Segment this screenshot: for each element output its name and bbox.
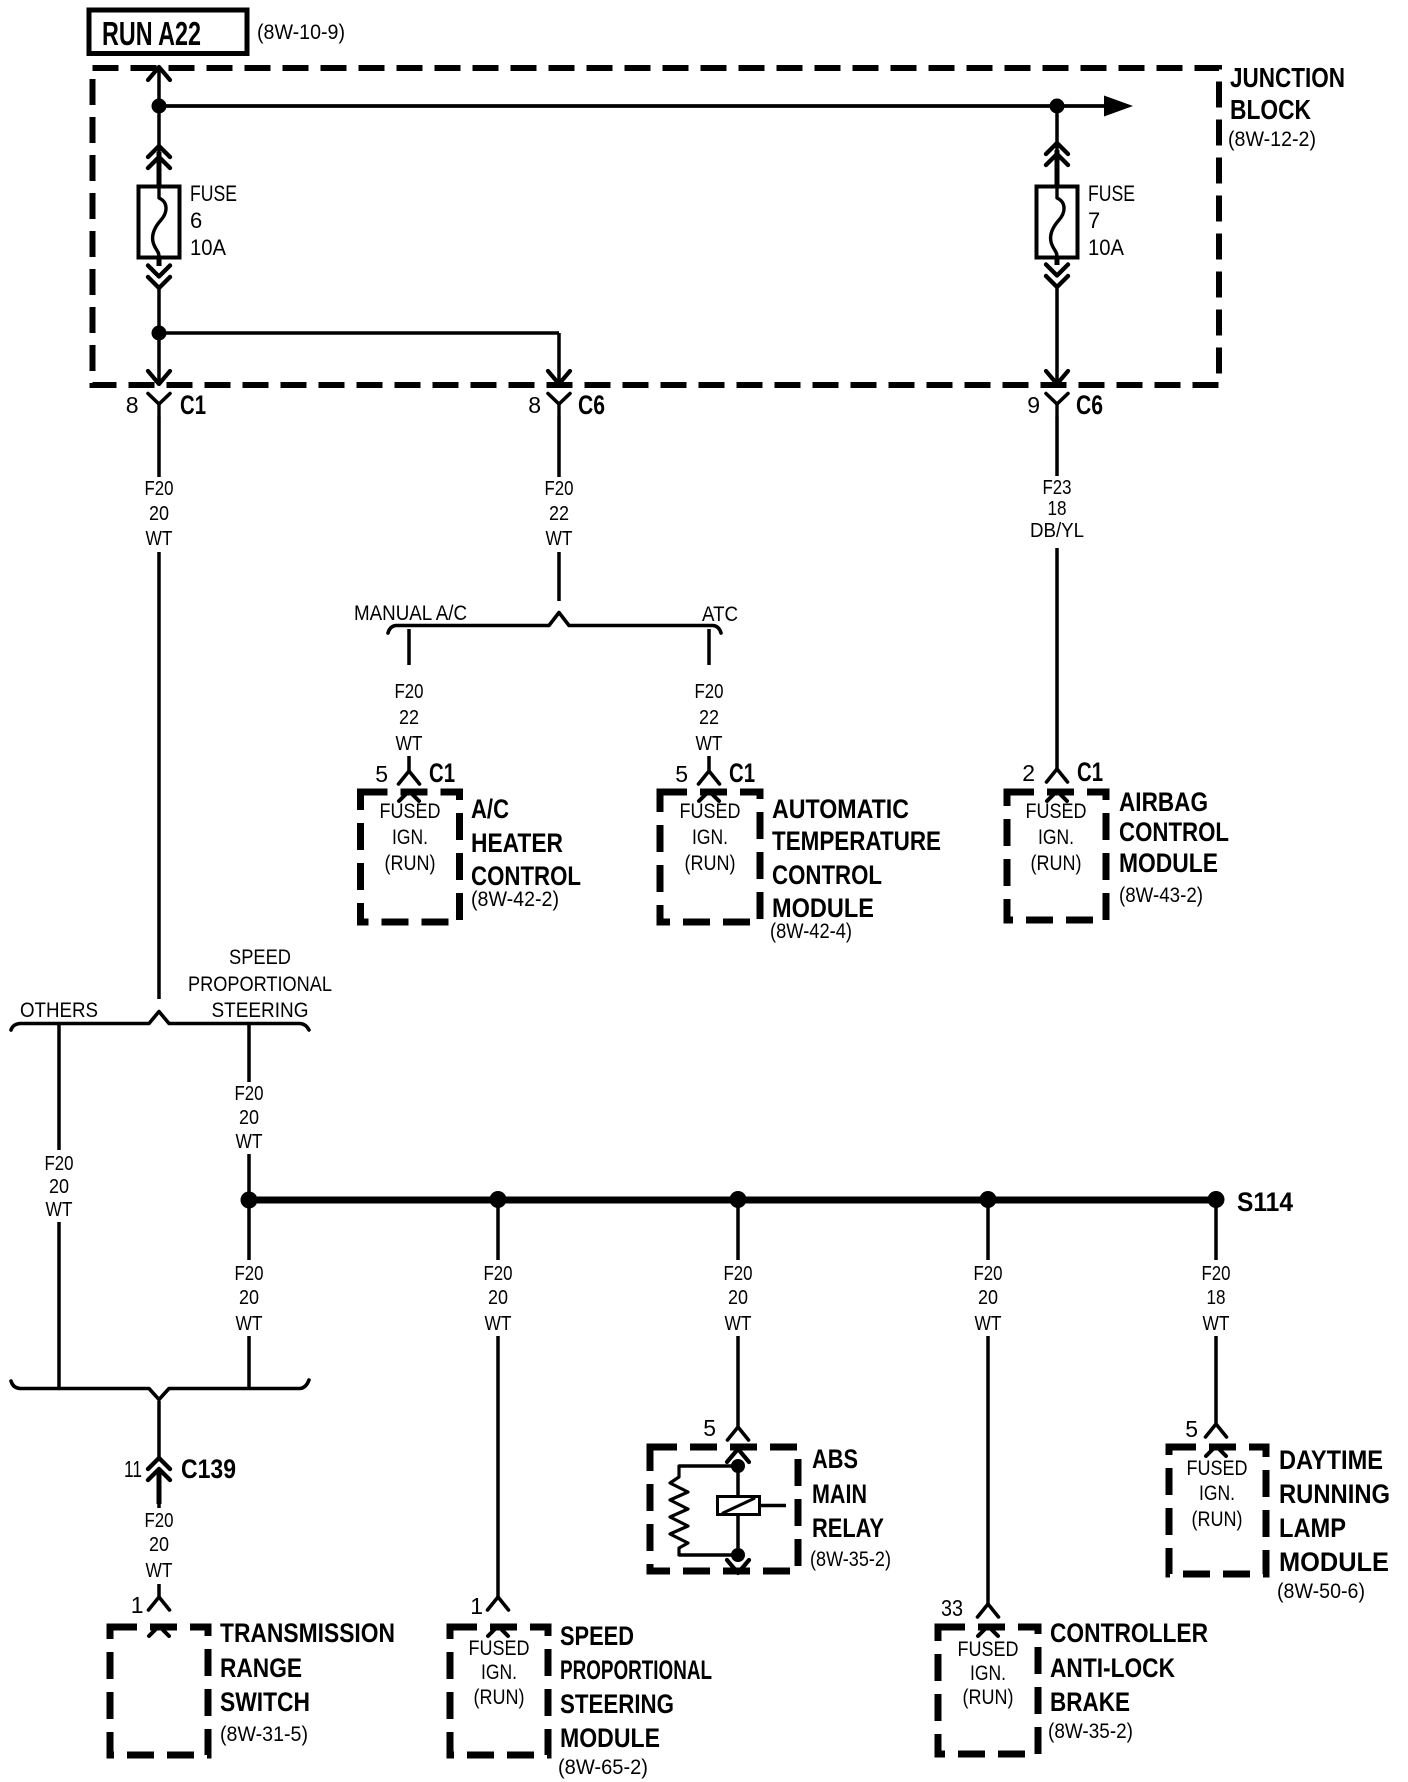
svg-text:WT: WT xyxy=(1203,1313,1230,1335)
wire fuse 7 to C6 exit xyxy=(1055,287,1059,383)
arrowhead at ABS relay box bottom exit xyxy=(727,1560,749,1573)
wire down to C6 exit xyxy=(557,333,561,383)
svg-text:FUSED: FUSED xyxy=(380,800,441,823)
wire S114 to ABS main relay xyxy=(736,1204,740,1427)
splice node speed prop steering module column xyxy=(490,1191,507,1208)
connector 11 C139 xyxy=(148,1458,170,1469)
wire ATC branch xyxy=(707,629,711,665)
wire label F20 18 WT (drl) xyxy=(1193,1260,1239,1336)
arrowhead down at C6 exit xyxy=(548,371,570,384)
connector 33 at controller anti-lock brake xyxy=(978,1604,999,1617)
svg-text:20: 20 xyxy=(488,1287,508,1309)
connector 5 C1 at a/c heater control xyxy=(399,771,420,784)
svg-text:FUSED: FUSED xyxy=(1026,800,1087,823)
svg-text:MODULE: MODULE xyxy=(1119,848,1218,878)
split brace MANUAL A/C vs ATC xyxy=(388,613,721,634)
wire fuse 6 to C1 exit xyxy=(157,288,161,383)
wire OTHERS branch xyxy=(57,1025,61,1389)
svg-text:BLOCK: BLOCK xyxy=(1230,94,1311,125)
svg-text:WT: WT xyxy=(146,1560,173,1582)
svg-text:22: 22 xyxy=(399,707,419,729)
svg-text:FUSE: FUSE xyxy=(1088,181,1135,206)
svg-text:RUNNING: RUNNING xyxy=(1279,1479,1390,1509)
relay coil lead xyxy=(760,1504,787,1508)
svg-text:22: 22 xyxy=(699,707,719,729)
svg-text:CONTROLLER: CONTROLLER xyxy=(1050,1618,1208,1648)
svg-text:(8W-50-6): (8W-50-6) xyxy=(1277,1580,1365,1603)
svg-text:PROPORTIONAL: PROPORTIONAL xyxy=(560,1655,712,1685)
speed proportional steering module box xyxy=(450,1627,548,1755)
wire resistor bottom to node xyxy=(679,1553,738,1557)
svg-text:18: 18 xyxy=(1207,1287,1226,1309)
svg-text:(8W-12-2): (8W-12-2) xyxy=(1228,128,1316,151)
svg-text:5: 5 xyxy=(375,761,388,787)
wire C139 to transmission range switch xyxy=(157,1504,161,1597)
svg-text:WT: WT xyxy=(725,1313,752,1335)
svg-text:F20: F20 xyxy=(1202,1263,1231,1285)
svg-text:7: 7 xyxy=(1088,208,1100,233)
svg-text:F23: F23 xyxy=(1043,477,1072,499)
wire label F20 20 WT (cab) xyxy=(965,1260,1011,1336)
svg-text:RANGE: RANGE xyxy=(220,1653,302,1683)
node RUN A22 feed box xyxy=(89,10,247,54)
junction node top inside ABS relay xyxy=(731,1459,745,1473)
wire top bus across junction block xyxy=(159,104,1106,108)
svg-text:(8W-35-2): (8W-35-2) xyxy=(1048,1720,1133,1743)
wire label F20 20 WT (c139) xyxy=(136,1508,182,1584)
svg-text:20: 20 xyxy=(239,1287,259,1309)
connector chevrons below fuse 6 xyxy=(157,258,162,266)
svg-text:AUTOMATIC: AUTOMATIC xyxy=(772,794,909,824)
splice node at sps branch xyxy=(241,1192,258,1209)
svg-text:F20: F20 xyxy=(235,1083,264,1105)
connector 8 C6 xyxy=(548,394,570,405)
connector chevrons above fuse 7 xyxy=(1046,143,1068,154)
svg-text:1: 1 xyxy=(131,1592,144,1618)
svg-text:LAMP: LAMP xyxy=(1279,1513,1346,1543)
svg-text:C1: C1 xyxy=(429,758,455,788)
svg-text:33: 33 xyxy=(941,1595,963,1621)
svg-text:20: 20 xyxy=(149,503,169,525)
connector 5 at daytime running lamp module xyxy=(1206,1424,1227,1437)
svg-text:IGN.: IGN. xyxy=(692,826,728,849)
svg-text:WT: WT xyxy=(485,1313,512,1335)
svg-text:CONTROL: CONTROL xyxy=(471,861,581,891)
svg-text:F20: F20 xyxy=(145,1510,174,1532)
wire label F20 22 WT (center run) xyxy=(536,477,582,552)
svg-text:S114: S114 xyxy=(1237,1187,1293,1217)
wire label F20 20 WT (left run) xyxy=(136,477,182,552)
svg-text:JUNCTION: JUNCTION xyxy=(1230,62,1345,93)
svg-text:IGN.: IGN. xyxy=(392,826,428,849)
arrowhead up at junction block top entry xyxy=(148,67,170,80)
wire label F23 18 DB/YL (airbag run) xyxy=(1026,476,1088,548)
wire label F20 20 WT (abs) xyxy=(715,1260,761,1336)
svg-text:(RUN): (RUN) xyxy=(1031,852,1082,875)
ABS main relay box xyxy=(650,1447,798,1571)
svg-text:10A: 10A xyxy=(190,235,226,260)
wire to relay resistor branch xyxy=(679,1464,738,1468)
svg-text:F20: F20 xyxy=(695,681,724,703)
svg-text:BRAKE: BRAKE xyxy=(1050,1687,1130,1717)
svg-text:STEERING: STEERING xyxy=(560,1689,674,1719)
svg-text:MODULE: MODULE xyxy=(772,893,874,923)
resistor of ABS main relay xyxy=(670,1466,688,1555)
wire label F20 20 WT (others) xyxy=(36,1150,82,1222)
svg-text:WT: WT xyxy=(696,733,723,755)
svg-text:IGN.: IGN. xyxy=(1199,1482,1235,1505)
svg-text:MODULE: MODULE xyxy=(1279,1547,1389,1577)
connector 8 C1 xyxy=(148,394,170,405)
svg-text:(RUN): (RUN) xyxy=(963,1686,1014,1709)
svg-text:(8W-65-2): (8W-65-2) xyxy=(558,1756,648,1779)
svg-text:IGN.: IGN. xyxy=(1038,826,1074,849)
svg-text:MANUAL A/C: MANUAL A/C xyxy=(354,602,467,625)
svg-text:ANTI-LOCK: ANTI-LOCK xyxy=(1050,1653,1175,1683)
svg-text:10A: 10A xyxy=(1088,235,1124,260)
connector 1 at transmission range switch xyxy=(149,1597,170,1610)
svg-text:(8W-43-2): (8W-43-2) xyxy=(1119,884,1203,907)
junction node below fuse 6 xyxy=(152,326,167,341)
svg-text:PROPORTIONAL: PROPORTIONAL xyxy=(188,973,332,996)
svg-text:(RUN): (RUN) xyxy=(685,852,736,875)
arrowhead right end of top bus xyxy=(1104,96,1133,117)
svg-text:FUSED: FUSED xyxy=(469,1637,530,1660)
svg-text:AIRBAG: AIRBAG xyxy=(1119,787,1208,817)
svg-text:FUSED: FUSED xyxy=(958,1638,1019,1661)
A/C heater control box xyxy=(361,792,460,922)
svg-text:C139: C139 xyxy=(181,1454,236,1484)
connector 1 at speed proportional steering module xyxy=(488,1597,509,1610)
arrowhead at ABS relay box entry xyxy=(727,1449,749,1462)
wire SPS branch to splice S114 xyxy=(247,1025,251,1389)
svg-text:2: 2 xyxy=(1022,760,1035,786)
svg-text:WT: WT xyxy=(236,1313,263,1335)
wire fuse 7 drop xyxy=(1055,106,1059,152)
connector 2 C1 at airbag control module xyxy=(1047,769,1068,782)
wire C6 to airbag control module xyxy=(1055,417,1059,769)
wire S114 to daytime running lamp module xyxy=(1214,1204,1218,1424)
svg-text:22: 22 xyxy=(549,503,569,525)
svg-text:WT: WT xyxy=(146,528,173,550)
wire branch to C6 exit xyxy=(159,331,559,335)
wire relay coil to bottom node xyxy=(736,1514,740,1555)
svg-text:20: 20 xyxy=(149,1534,169,1556)
svg-text:WT: WT xyxy=(396,733,423,755)
svg-text:F20: F20 xyxy=(724,1263,753,1285)
transmission range switch box xyxy=(110,1627,208,1755)
junction block dashed border xyxy=(93,68,1220,385)
merge brace to C139 xyxy=(11,1380,309,1400)
svg-text:DAYTIME: DAYTIME xyxy=(1279,1445,1383,1475)
svg-text:(8W-35-2): (8W-35-2) xyxy=(810,1548,891,1571)
wire label F20 20 WT (sps lower) xyxy=(226,1260,272,1336)
svg-text:F20: F20 xyxy=(545,478,574,500)
svg-text:8: 8 xyxy=(528,392,541,418)
split brace OTHERS vs SPEED PROPORTIONAL STEERING xyxy=(11,1012,309,1031)
svg-text:IGN.: IGN. xyxy=(970,1662,1006,1685)
svg-text:ABS: ABS xyxy=(812,1444,858,1474)
svg-text:(8W-10-9): (8W-10-9) xyxy=(257,21,345,44)
svg-text:20: 20 xyxy=(978,1287,998,1309)
svg-text:FUSE: FUSE xyxy=(190,181,237,206)
fuse 7 10A xyxy=(1037,187,1078,258)
svg-text:FUSED: FUSED xyxy=(680,800,741,823)
svg-text:F20: F20 xyxy=(145,478,174,500)
junction node at top bus xyxy=(152,99,167,114)
arrowhead down at C1 exit xyxy=(148,371,170,384)
wire C6 to A/C split xyxy=(557,417,561,601)
svg-text:20: 20 xyxy=(239,1107,259,1129)
svg-text:C1: C1 xyxy=(729,758,755,788)
arrowhead down at right C6 exit xyxy=(1046,371,1068,384)
svg-text:5: 5 xyxy=(703,1415,716,1441)
svg-text:SPEED: SPEED xyxy=(560,1621,634,1651)
relay coil of ABS main relay xyxy=(718,1497,760,1515)
connector 5 C1 at ATC module xyxy=(699,771,720,784)
airbag control module box xyxy=(1007,792,1106,920)
svg-text:MAIN: MAIN xyxy=(812,1479,867,1509)
junction node bottom inside ABS relay xyxy=(731,1548,745,1562)
svg-text:WT: WT xyxy=(236,1131,263,1153)
svg-text:9: 9 xyxy=(1027,392,1040,418)
junction node above fuse 7 xyxy=(1050,99,1065,114)
wire C1 to splice brace (left main run) xyxy=(157,417,161,999)
connector chevrons below fuse 7 xyxy=(1055,258,1060,265)
svg-text:C6: C6 xyxy=(1076,390,1103,420)
svg-text:(RUN): (RUN) xyxy=(1192,1508,1243,1531)
svg-text:(8W-31-5): (8W-31-5) xyxy=(220,1723,308,1746)
splice bus S114 xyxy=(249,1197,1216,1204)
wire from RUN A22 into junction block xyxy=(157,70,161,157)
wire S114 to speed proportional steering module xyxy=(496,1204,500,1597)
svg-text:6: 6 xyxy=(190,208,202,233)
svg-text:RELAY: RELAY xyxy=(812,1513,884,1543)
wire node to relay coil xyxy=(736,1466,740,1497)
svg-text:(8W-42-4): (8W-42-4) xyxy=(770,920,852,943)
svg-text:C1: C1 xyxy=(1077,757,1103,787)
svg-text:A/C: A/C xyxy=(471,794,509,824)
svg-text:TRANSMISSION: TRANSMISSION xyxy=(220,1618,395,1648)
svg-text:20: 20 xyxy=(728,1287,748,1309)
wire MANUAL A/C branch xyxy=(407,629,411,665)
svg-text:F20: F20 xyxy=(484,1263,513,1285)
splice node controller anti-lock brake column xyxy=(980,1191,997,1208)
automatic temperature control module box xyxy=(660,792,760,922)
svg-text:WT: WT xyxy=(975,1313,1002,1335)
svg-text:RUN A22: RUN A22 xyxy=(102,15,201,52)
svg-text:DB/YL: DB/YL xyxy=(1030,520,1084,542)
fuse 6 10A xyxy=(139,187,180,258)
svg-text:TEMPERATURE: TEMPERATURE xyxy=(772,826,941,856)
svg-text:8: 8 xyxy=(126,392,139,418)
wire label F20 20 WT (spsm) xyxy=(475,1260,521,1336)
svg-text:HEATER: HEATER xyxy=(471,828,563,858)
connector 5 at ABS main relay xyxy=(728,1427,749,1440)
svg-text:(RUN): (RUN) xyxy=(474,1686,525,1709)
splice node S114 right end xyxy=(1208,1191,1225,1208)
svg-text:(8W-42-2): (8W-42-2) xyxy=(471,888,559,911)
svg-text:SPEED: SPEED xyxy=(229,946,291,969)
daytime running lamp module box xyxy=(1169,1447,1266,1574)
svg-text:11: 11 xyxy=(124,1456,142,1482)
connector chevrons above fuse 6 xyxy=(148,146,170,157)
splice node abs main relay column xyxy=(730,1191,747,1208)
svg-text:CONTROL: CONTROL xyxy=(1119,817,1229,847)
svg-text:5: 5 xyxy=(675,761,688,787)
svg-text:ATC: ATC xyxy=(702,603,738,626)
svg-text:F20: F20 xyxy=(974,1263,1003,1285)
svg-text:5: 5 xyxy=(1185,1416,1198,1442)
svg-text:20: 20 xyxy=(49,1176,69,1198)
svg-text:OTHERS: OTHERS xyxy=(20,999,98,1022)
svg-text:F20: F20 xyxy=(45,1153,74,1175)
svg-text:WT: WT xyxy=(546,528,573,550)
wire S114 to controller anti-lock brake xyxy=(986,1204,990,1604)
svg-text:C6: C6 xyxy=(578,390,605,420)
svg-text:STEERING: STEERING xyxy=(212,999,309,1022)
svg-text:FUSED: FUSED xyxy=(1187,1457,1248,1480)
svg-text:WT: WT xyxy=(46,1199,73,1221)
svg-text:C1: C1 xyxy=(180,390,206,420)
svg-text:IGN.: IGN. xyxy=(481,1661,517,1684)
svg-text:MODULE: MODULE xyxy=(560,1723,660,1753)
controller anti-lock brake box xyxy=(938,1627,1038,1754)
svg-text:SWITCH: SWITCH xyxy=(220,1687,310,1717)
svg-text:1: 1 xyxy=(470,1593,483,1619)
svg-text:(RUN): (RUN) xyxy=(385,852,436,875)
wire label F20 20 WT (sps upper) xyxy=(226,1082,272,1154)
svg-text:F20: F20 xyxy=(235,1263,264,1285)
svg-text:CONTROL: CONTROL xyxy=(772,860,882,890)
svg-text:F20: F20 xyxy=(395,681,424,703)
wire merge to C139 connector xyxy=(157,1401,161,1457)
connector 9 C6 xyxy=(1046,394,1068,405)
svg-text:18: 18 xyxy=(1048,498,1067,520)
